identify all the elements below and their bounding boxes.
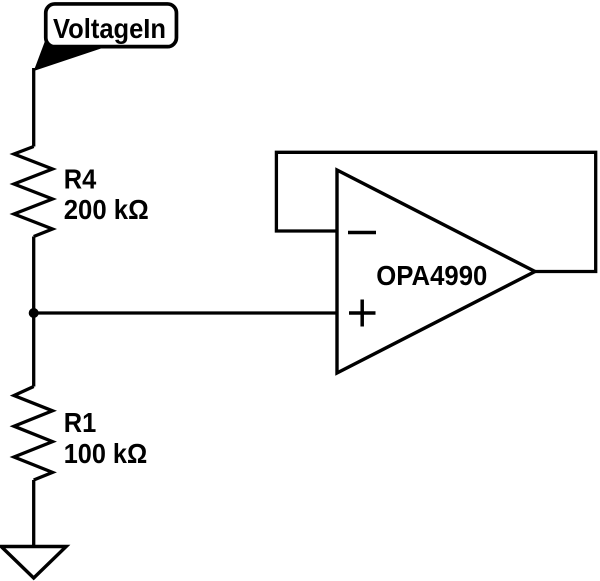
svg-text:OPA4990: OPA4990: [376, 260, 487, 291]
svg-text:200 kΩ: 200 kΩ: [64, 194, 149, 225]
svg-text:R1: R1: [64, 407, 97, 438]
svg-text:VoltageIn: VoltageIn: [53, 13, 166, 44]
svg-text:R4: R4: [64, 163, 97, 194]
svg-text:100 kΩ: 100 kΩ: [64, 438, 148, 469]
